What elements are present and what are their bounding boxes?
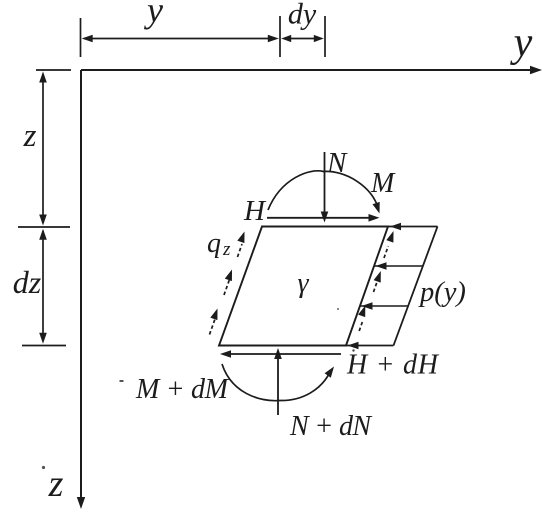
svg-text:y: y: [510, 20, 533, 66]
svg-text:dz: dz: [13, 264, 42, 300]
moment M+dM arc: [222, 364, 331, 401]
svg-text:p(y): p(y): [418, 277, 466, 308]
q_z dashed arrow 2 (middle, left edge): [224, 270, 232, 296]
svg-text:H: H: [243, 195, 267, 227]
q_z dashed arrow 3 (bottom, left edge): [210, 309, 218, 335]
extension line bottom left: [22, 345, 66, 347]
load strip top edge: [388, 226, 438, 228]
svg-text:N + dN: N + dN: [289, 411, 372, 442]
load strip bottom edge: [346, 345, 394, 347]
p(y) arrow on bottom edge: [348, 342, 359, 350]
svg-text:dy: dy: [288, 0, 317, 31]
speck above H+dH label: [352, 349, 354, 351]
moment M arrowhead: [373, 202, 380, 214]
speck left of M+dM label: [120, 380, 124, 382]
dimension line dz with arrows: [39, 229, 47, 344]
shear flow dashed arrow 3 on right face: [358, 306, 365, 332]
svg-text:M + dM: M + dM: [135, 374, 230, 405]
svg-text:z: z: [23, 118, 37, 154]
shear flow dashed arrow 1 on right face: [384, 231, 394, 258]
svg-text:z: z: [48, 463, 64, 505]
svg-text:y: y: [144, 0, 163, 30]
dimension line y with arrows: [82, 35, 279, 43]
extension tick at y-axis top: [80, 18, 82, 57]
dimension line z with arrows: [39, 72, 47, 226]
y axis: [81, 66, 542, 74]
speck near division line 2: [337, 308, 339, 310]
shear flow dashed arrow 2 on right face: [374, 271, 381, 292]
extension line middle left: [18, 226, 70, 228]
q_z dashed arrow 1 (top, left edge): [237, 232, 244, 258]
extension tick at right of dy: [324, 16, 326, 57]
p(y) arrow on division 1: [376, 262, 387, 270]
extension line at top left: [36, 69, 71, 71]
svg-text:q: q: [207, 228, 221, 259]
moment M arc: [268, 171, 379, 210]
load strip right edge: [394, 227, 438, 346]
force H+dH arrow: [220, 350, 341, 358]
extension tick between y and dy: [279, 16, 281, 57]
svg-text:H + dH: H + dH: [346, 350, 440, 381]
svg-text:M: M: [370, 168, 396, 199]
dimension line dy with arrows: [281, 35, 324, 42]
svg-text:z: z: [222, 239, 231, 260]
plate element parallelogram: [219, 227, 388, 346]
force N arrow: [321, 152, 329, 223]
z axis: [77, 70, 85, 509]
force H arrow: [267, 214, 380, 222]
strip division line 2: [360, 305, 408, 307]
moment M+dM arrowhead: [325, 367, 334, 378]
p(y) arrow on top edge: [390, 223, 401, 231]
force N+dN arrow: [274, 348, 282, 415]
strip division line 1: [374, 265, 423, 267]
stray dot near z label: [42, 466, 45, 469]
svg-text:γ: γ: [297, 268, 309, 299]
p(y) arrow on division 2: [362, 302, 373, 310]
